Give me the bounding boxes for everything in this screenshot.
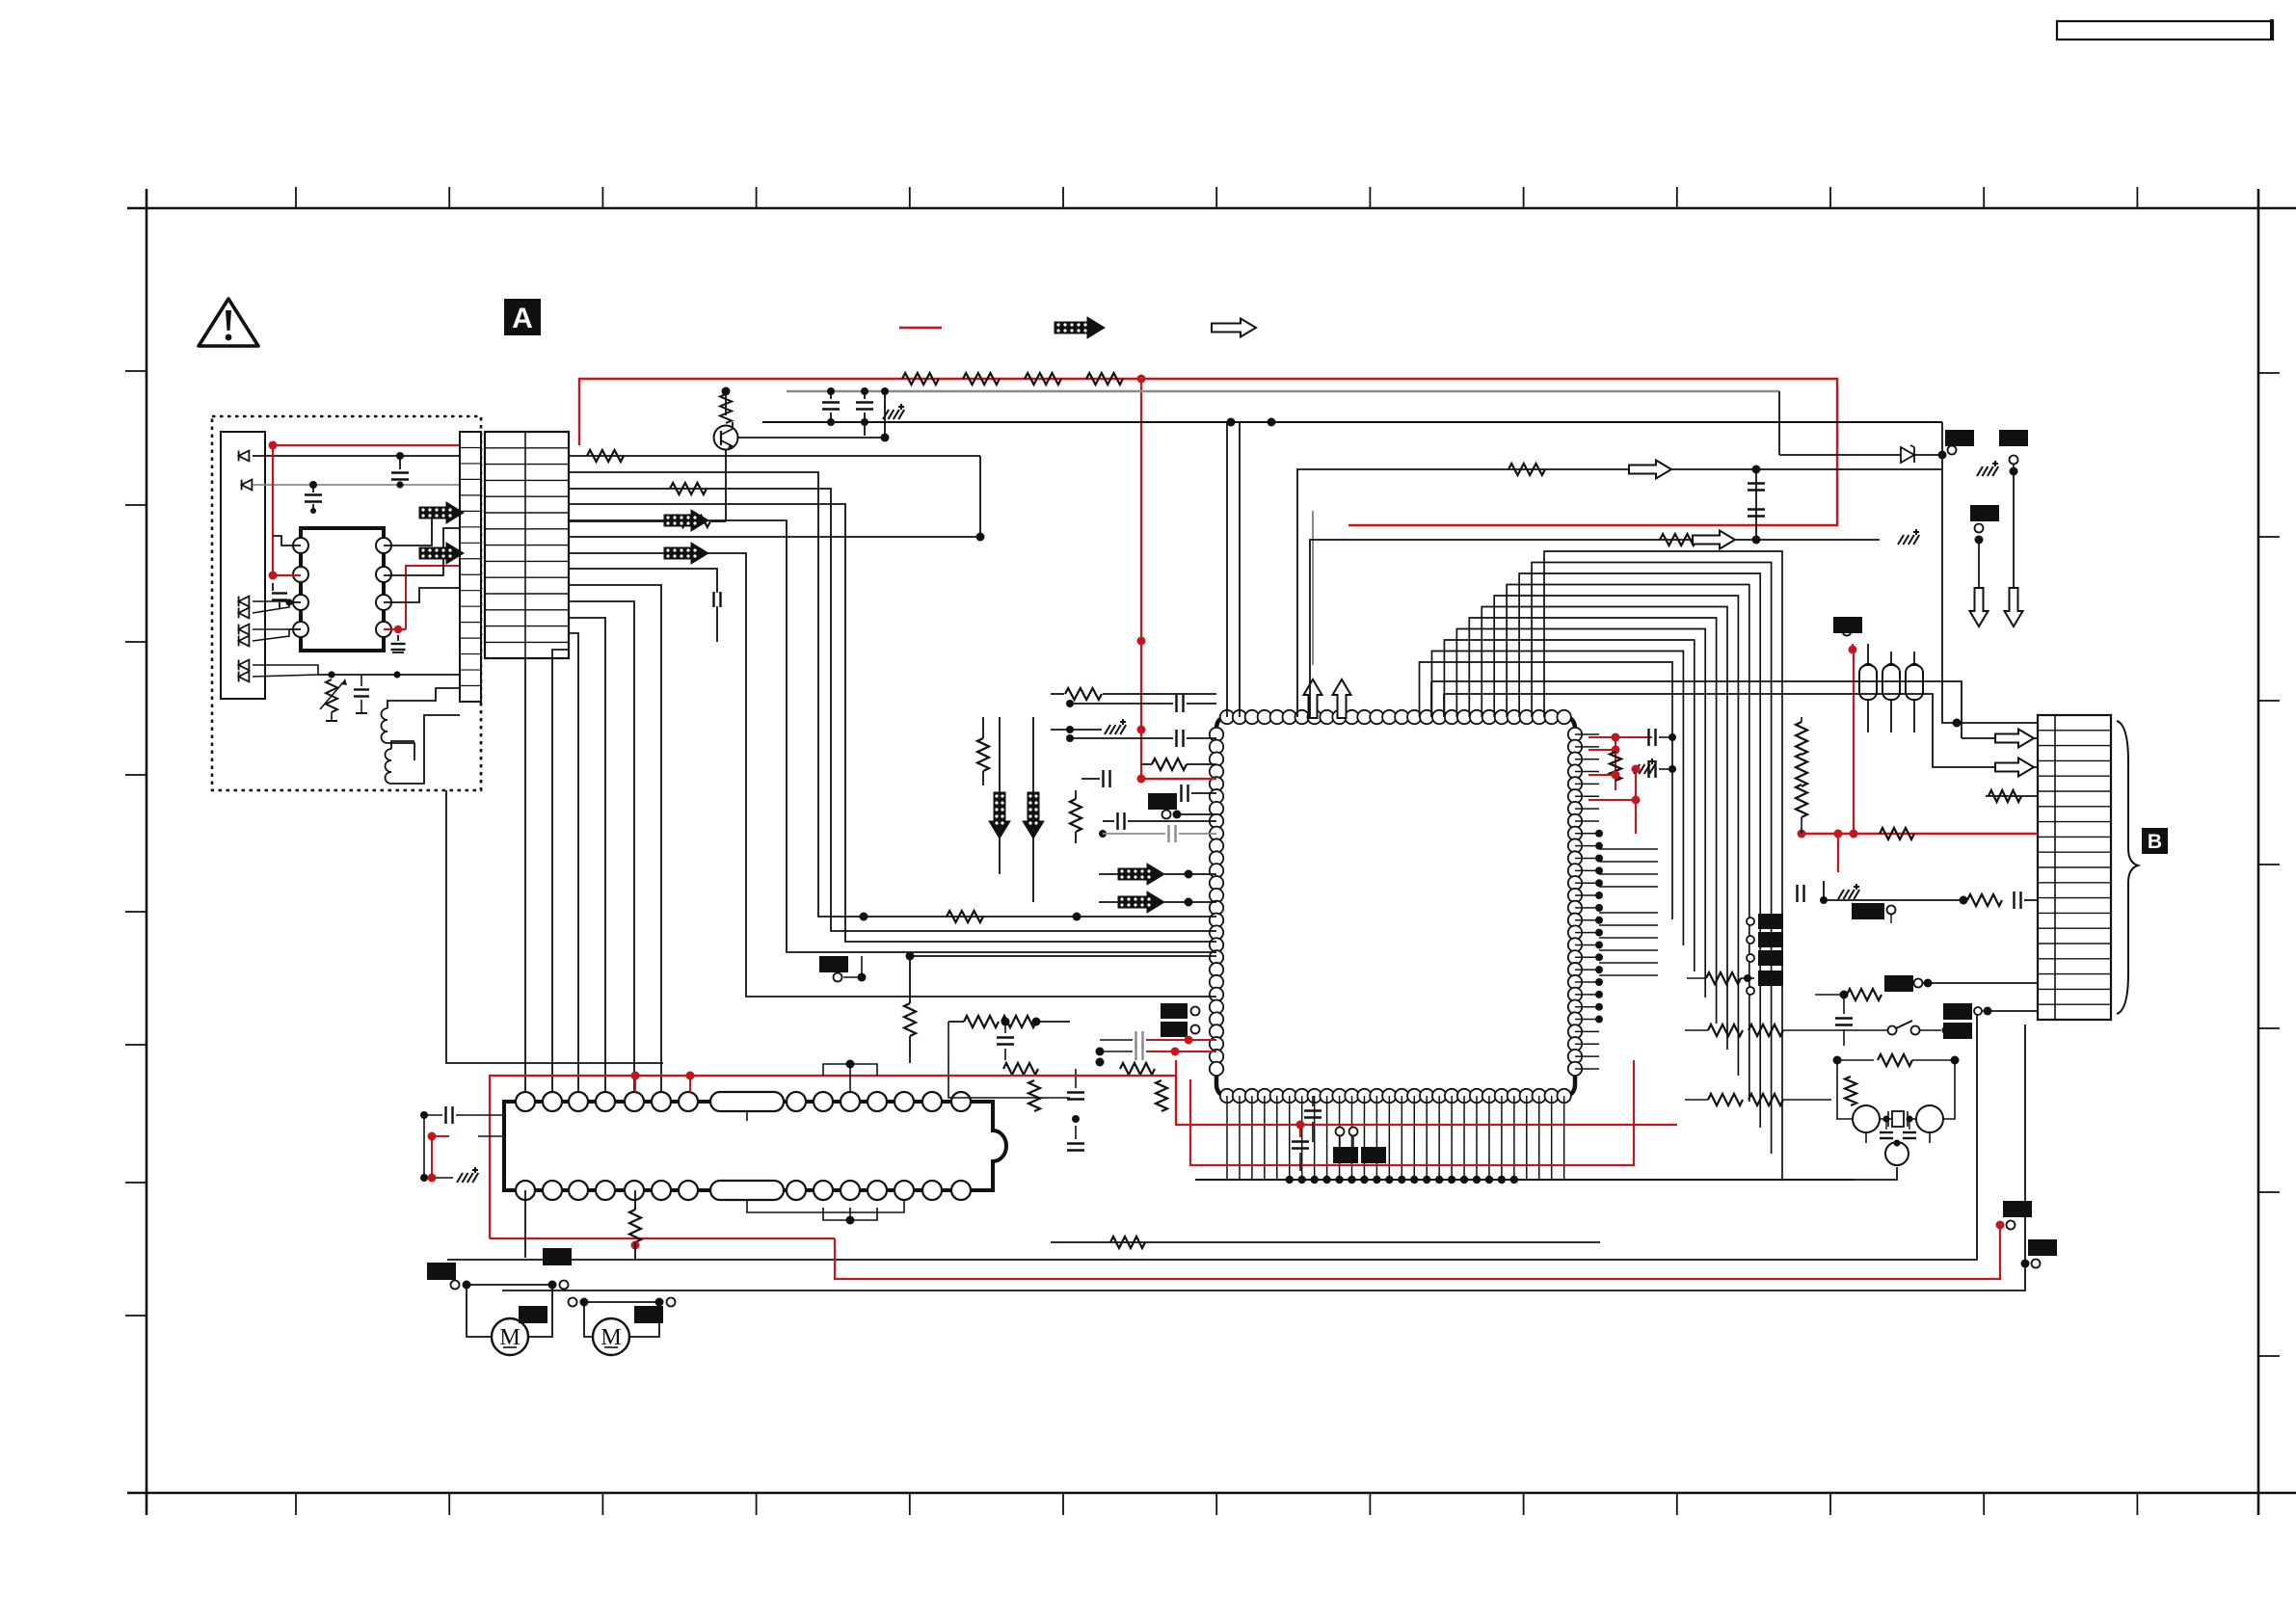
resistor R5 (725, 391, 727, 415)
row 934 (1824, 899, 1963, 901)
capacitor C1 (305, 493, 322, 495)
blk term (2024, 1024, 2026, 1025)
connector CN3 body (2038, 715, 2111, 1020)
IC U2 pins (293, 538, 308, 553)
label A (504, 299, 541, 335)
svg-text:A: A (512, 303, 533, 334)
diode D4 (239, 608, 250, 619)
res rv2 (977, 738, 989, 771)
label B (2142, 828, 2168, 854)
row wire 11 (569, 618, 605, 1092)
osc res v (1845, 1077, 1856, 1105)
title box (2057, 21, 2273, 40)
rc rows (1962, 737, 2038, 739)
connector CN1 pin strip (460, 432, 481, 702)
row stub wires (1599, 848, 1658, 850)
res bridge2 (823, 1208, 877, 1220)
red branch down (1140, 379, 1142, 779)
cap cv1 (1004, 1022, 1006, 1033)
row y560b (1975, 536, 1984, 545)
wire dip l (478, 1135, 504, 1137)
svg-text:M: M (601, 1325, 621, 1350)
cap cb2 (1304, 1109, 1322, 1111)
stack rects (1161, 1003, 1188, 1019)
rect1017 (1884, 975, 1913, 992)
red drop (1679, 640, 1853, 650)
wires from cans (1867, 540, 1869, 652)
wire (2013, 471, 2015, 590)
diode D6 (239, 636, 250, 647)
wire (1941, 422, 1943, 455)
row wire 14 (524, 658, 526, 1092)
regulator IC U2 body (301, 528, 384, 651)
arrow a2 (1118, 891, 1164, 913)
stk (1758, 914, 1783, 929)
cap c10 (1102, 770, 1104, 787)
rc wire2 (1444, 694, 1962, 767)
border frame (127, 207, 2296, 210)
wire (253, 665, 318, 677)
IC pin1 hook (273, 536, 301, 545)
wire (884, 391, 886, 438)
vert to bus (1226, 422, 1228, 717)
U1 pins (1220, 710, 1234, 724)
red right4 (1589, 799, 1636, 801)
red j (428, 1132, 437, 1141)
resistor R4 (1086, 373, 1123, 385)
res pair1 (964, 1016, 999, 1027)
row y487 (1297, 469, 1942, 717)
res pair A (1708, 1024, 1743, 1036)
osc wires (1837, 1077, 1853, 1119)
diode D5 (239, 625, 250, 635)
res bridge (823, 1064, 877, 1076)
red loop2 (1190, 1060, 1634, 1165)
red right caps (1589, 736, 1652, 738)
red vert (1176, 1076, 1178, 1125)
resistor R2 (963, 373, 1000, 385)
gnd right (1634, 758, 1655, 774)
hline 1327 red (835, 1225, 2000, 1279)
row wire 13 (552, 650, 569, 1092)
wire (948, 1022, 1070, 1098)
nested bus wires (1544, 551, 1782, 1180)
capacitor C5 (360, 675, 362, 686)
gray vert arrow1 (1312, 686, 1314, 717)
gndp (1105, 719, 1126, 734)
wire (910, 955, 1216, 957)
motor M2 (593, 1318, 629, 1355)
hline 1289 (1051, 1241, 1600, 1243)
cap1060 (1843, 995, 1845, 1014)
arrow a1 (1118, 864, 1164, 885)
stk wires (1658, 920, 1747, 922)
cap to pin (1069, 703, 1071, 705)
solid arrow into strip (419, 502, 464, 523)
legend open arrow (1212, 319, 1256, 337)
capacitor C2 (399, 456, 401, 469)
rc row a (1780, 722, 2038, 724)
c row 872 (1599, 837, 2038, 840)
blackrect2 (1999, 430, 2028, 446)
three res col (1796, 722, 1807, 755)
variable resistor VR1 (326, 679, 337, 712)
capacitor C3 (272, 583, 274, 591)
gnd (883, 404, 904, 419)
terminals (1336, 1128, 1345, 1136)
brace (2117, 721, 2138, 1014)
cap c11 (1180, 785, 1182, 802)
transistor Q1 (714, 426, 738, 450)
hline 1307 (447, 1011, 1977, 1260)
wire (384, 588, 460, 602)
crystal X1 (1880, 1118, 1891, 1120)
red bus right (1802, 833, 2038, 835)
cap cv3 (1067, 1142, 1084, 1144)
res pair2 (1003, 1063, 1038, 1075)
res rv3 (904, 1003, 916, 1036)
res1032 (1815, 994, 1844, 996)
red terminal (1843, 627, 1852, 636)
gnd dip (420, 1174, 428, 1182)
c row1 (1722, 722, 1942, 724)
wireB (1684, 1030, 1686, 1100)
red junction (1137, 637, 1146, 646)
elec 934 (1838, 884, 1859, 899)
row wire 9 (569, 585, 661, 1092)
motor M1 (492, 1318, 528, 1355)
blackrect 940 (1852, 903, 1884, 919)
red vert up (1853, 650, 1855, 834)
diode D8 (239, 672, 250, 682)
red term (1996, 1221, 2005, 1230)
res rv5 (1156, 1080, 1167, 1111)
gnd pol2 (1898, 529, 1919, 545)
res to pin (1065, 688, 1102, 700)
sw rects (1943, 1003, 1972, 1020)
legend red wire sample (899, 327, 942, 330)
bus dots (1286, 1176, 1294, 1184)
cap stack (1755, 469, 1757, 540)
motor wiring 2 (584, 1301, 659, 1303)
warning symbol (199, 299, 258, 346)
cap c9 (1175, 730, 1177, 747)
capacitor C7 (861, 387, 868, 395)
right pin stubs (1575, 733, 1599, 735)
cap cb1 (1292, 1140, 1309, 1142)
row wire 4 (569, 504, 1216, 942)
vert gray long (1312, 511, 1314, 665)
electrolytic capacitors (1859, 665, 1877, 700)
capacitor C6 (827, 387, 835, 395)
wire (253, 601, 289, 613)
res below dip (629, 1210, 641, 1242)
black bus (762, 421, 1942, 423)
stad wire (746, 1111, 748, 1121)
red supply wire (273, 445, 460, 575)
res pair B (1708, 1094, 1743, 1105)
gnd pol3 (1110, 697, 1112, 699)
switch (1888, 1026, 1897, 1035)
gray caps (1135, 1031, 1136, 1049)
diode D1 (239, 451, 250, 462)
red dip rail (490, 1076, 1177, 1238)
wire (634, 1190, 636, 1210)
gray vert arrow2 (1341, 686, 1343, 717)
motor wiring 1 (467, 1284, 552, 1286)
connector CN2 body (485, 432, 569, 658)
red wire r1 (1679, 692, 2038, 694)
pin drops (1226, 1096, 1228, 1180)
wire (725, 450, 727, 521)
osc res top (1837, 1059, 1874, 1061)
solid arrow into strip 2 (419, 543, 464, 564)
resistor R1 (902, 373, 939, 385)
diode D2 (242, 480, 253, 491)
row wire 6 (569, 536, 980, 538)
diode D3 (239, 597, 250, 607)
wire (273, 574, 301, 576)
resistor R3 (1025, 373, 1061, 385)
bridge rectifier block (221, 432, 265, 699)
row wire 3 (569, 489, 1216, 931)
motor rects (427, 1263, 456, 1280)
wire sw (1988, 1010, 2038, 1012)
gray bus (787, 390, 1779, 392)
frame tick marks (295, 187, 297, 208)
wire (253, 629, 289, 641)
cap c13 (1167, 825, 1169, 842)
zener D9 (1901, 447, 1914, 463)
red vert dn (1837, 834, 1839, 872)
row wire 7 (569, 552, 665, 554)
wire (732, 422, 734, 429)
electrolytic (1898, 531, 1907, 533)
stad wire2 (747, 1200, 904, 1212)
svg-text:B: B (2148, 831, 2162, 853)
cap c12 (1116, 812, 1118, 830)
wire (446, 790, 663, 1063)
U3 pins (516, 1092, 535, 1111)
row wire 10 (569, 601, 634, 1092)
cap dip (420, 1111, 428, 1119)
capacitor C4 (397, 635, 399, 641)
red left (490, 1237, 835, 1239)
red rail (579, 379, 1837, 525)
svg-text:M: M (499, 1325, 520, 1350)
row wire 2 (569, 472, 1216, 917)
dashed enclosure (212, 416, 481, 790)
blackrect5 (819, 956, 848, 972)
wire (253, 484, 460, 486)
cap right (1647, 760, 1649, 778)
legend solid arrow (1055, 317, 1105, 338)
wire (384, 528, 460, 575)
terminal (1938, 451, 1947, 460)
res1015 (1706, 972, 1741, 984)
wire (384, 511, 460, 545)
bottom bus (1195, 1179, 1854, 1181)
row wire 5 (569, 519, 665, 521)
junction (1227, 418, 1236, 427)
row y560 (1310, 540, 1880, 717)
red loop1 (1176, 1060, 1677, 1125)
red dot (1296, 1121, 1305, 1130)
red rail junction (1137, 375, 1146, 384)
res rv4 (1028, 1080, 1040, 1111)
osc body (1853, 1105, 1880, 1132)
blackrect3 (1970, 505, 1999, 521)
microcontroller U1 body (1216, 717, 1575, 1096)
hline 1339 (502, 1024, 2025, 1290)
rc wires top (1961, 715, 1962, 738)
red wire (406, 566, 460, 629)
osc caps (1885, 1119, 1887, 1130)
arrow down1 (989, 792, 1010, 838)
red wire to pin8 (384, 628, 406, 630)
junction (309, 481, 317, 489)
resistor R6 (674, 516, 710, 527)
wire (253, 455, 460, 457)
row wire 1 (569, 455, 980, 457)
res v right (1610, 752, 1621, 781)
crows (1427, 675, 2038, 738)
cap c8 (1175, 695, 1177, 712)
vert to bus2 (1239, 422, 1241, 717)
motor feeds (551, 1190, 553, 1285)
cap cv2 (1067, 1091, 1084, 1093)
zener branch (1778, 391, 1780, 455)
row wire 8 (569, 569, 717, 593)
arrow down2 (1023, 792, 1044, 838)
row wire 12 (569, 633, 578, 1092)
driver IC U3 body (504, 1102, 1006, 1190)
res r (1152, 758, 1187, 770)
blackrect4 (1148, 793, 1177, 810)
res rv (1070, 799, 1081, 832)
crystal link (1854, 1167, 1897, 1180)
inductor L2 (386, 749, 392, 760)
wire (738, 437, 885, 439)
gnd pol (1977, 461, 1998, 476)
red right2 (1589, 749, 1615, 751)
diode D7 (239, 660, 250, 671)
rects (1333, 1147, 1358, 1163)
red hpin (1141, 778, 1216, 780)
red right3 (1589, 774, 1615, 776)
wire (318, 674, 460, 676)
osc out (1885, 1142, 1909, 1165)
inductor L1 (382, 708, 387, 720)
